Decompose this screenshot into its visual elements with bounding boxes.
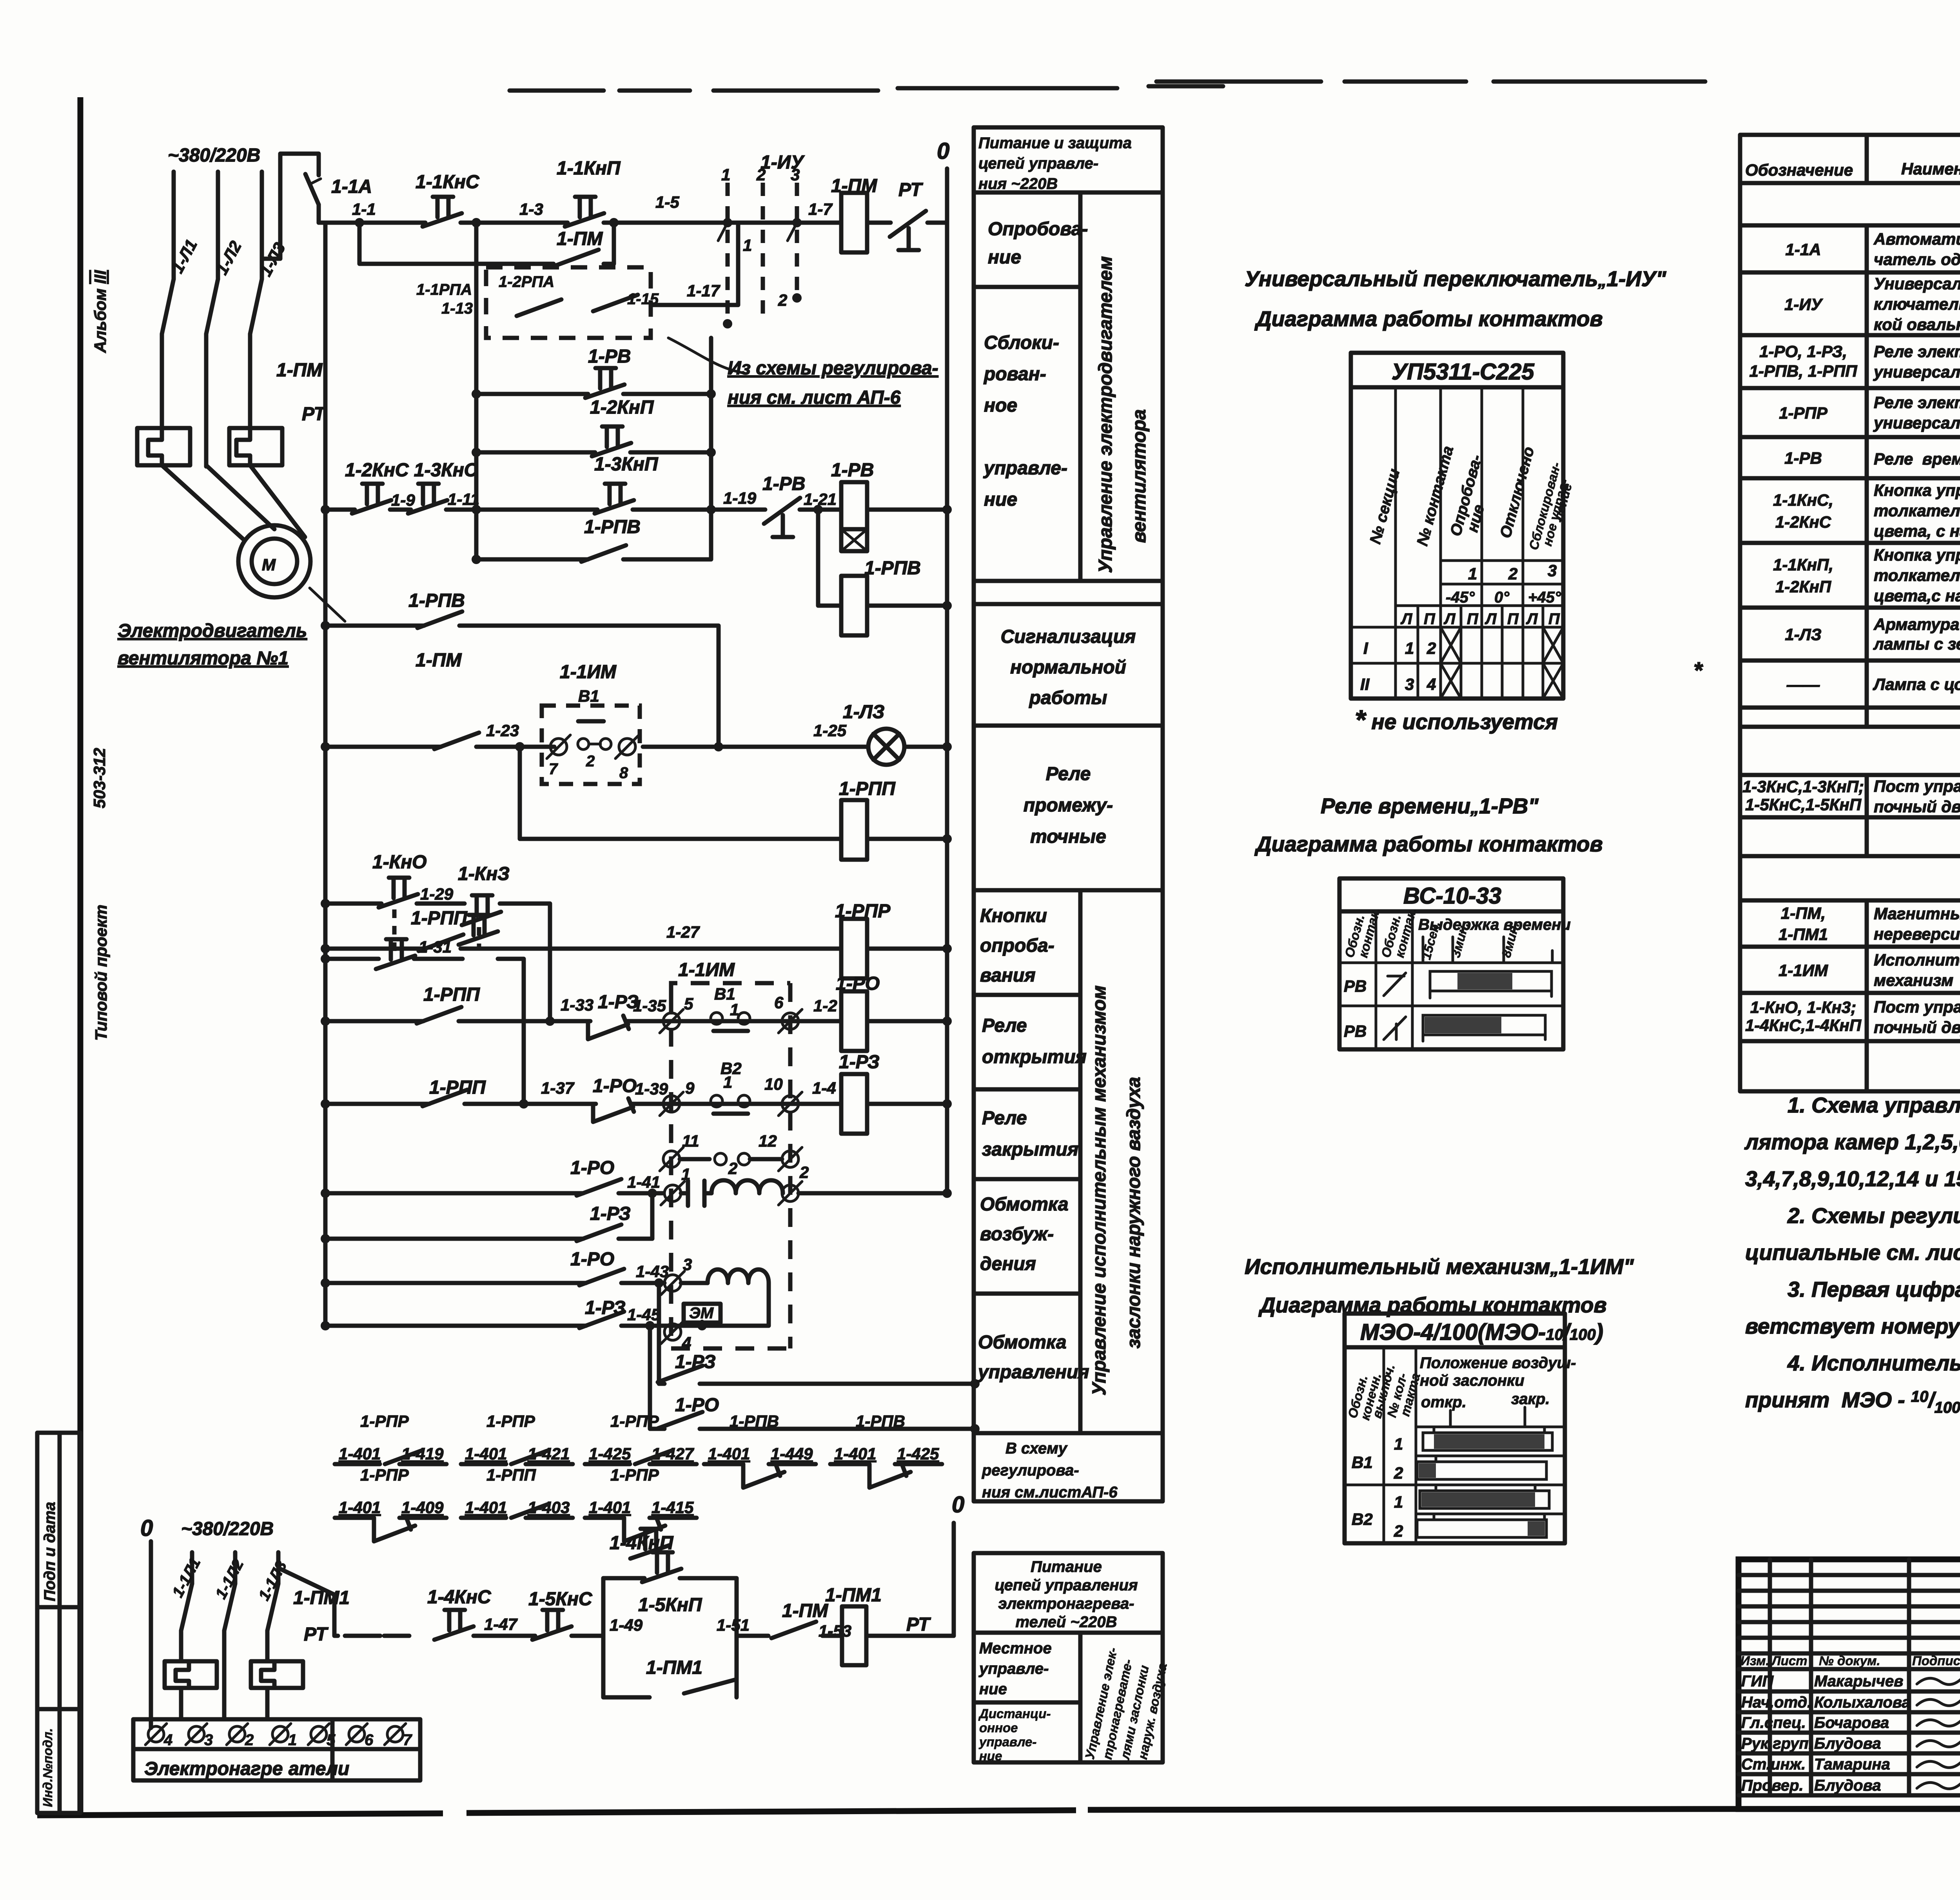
svg-text:1-17: 1-17: [687, 281, 720, 300]
table MEO-4/100: [1345, 1314, 1603, 1543]
svg-text:Подп и дата: Подп и дата: [41, 1502, 58, 1601]
svg-text:Наименование: Наименование: [1901, 160, 1960, 178]
row 1-1KnP buttons: [1773, 546, 1960, 605]
svg-text:В1: В1: [714, 985, 735, 1003]
coil 1-RPR: [835, 901, 891, 978]
node 1-25: [813, 721, 847, 740]
svg-text:1-401: 1-401: [589, 1498, 631, 1517]
svg-text:Л: Л: [1443, 610, 1456, 628]
svg-text:П: П: [1507, 610, 1519, 628]
coil 1-PM1: [822, 1585, 954, 1665]
node 1-51: [717, 1616, 750, 1634]
svg-text:1-1КнС,: 1-1КнС,: [1773, 491, 1833, 509]
node 1-31: [419, 938, 452, 956]
coil 1-RO: [836, 973, 880, 1051]
wire interlock to rung1: [651, 223, 738, 305]
svg-text:1: 1: [721, 165, 730, 184]
svg-text:3: 3: [683, 1255, 692, 1274]
svg-text:1-409: 1-409: [401, 1498, 444, 1517]
svg-text:Нач.отд.: Нач.отд.: [1741, 1694, 1811, 1711]
svg-text:1-1РПА: 1-1РПА: [416, 281, 472, 298]
svg-text:телей ~220В: телей ~220В: [1016, 1613, 1117, 1631]
contact 1-RO r12: [570, 1249, 624, 1285]
wire 1-RO to regulation: [650, 1326, 980, 1434]
svg-text:Инд.№подл.: Инд.№подл.: [40, 1728, 55, 1807]
svg-text:0°: 0°: [1494, 589, 1510, 606]
svg-text:Реле электромагнитное: Реле электромагнитное: [1874, 393, 1960, 412]
svg-text:1-ПМ1: 1-ПМ1: [825, 1585, 882, 1606]
svg-text:ния ~220В: ния ~220В: [978, 175, 1058, 192]
svg-text:1-ПМ,: 1-ПМ,: [1781, 904, 1826, 922]
svg-text:Л: Л: [1485, 610, 1497, 628]
contact 1-RO r11: [570, 1158, 621, 1196]
contact 1-PM1 seal: [646, 1657, 702, 1678]
label ~380/220V bottom: [181, 1519, 274, 1539]
svg-text:ное: ное: [984, 395, 1017, 416]
svg-text:12: 12: [759, 1132, 777, 1150]
winding humps r11: [711, 1180, 783, 1193]
coil 1-PM: [831, 176, 877, 252]
svg-text:В2: В2: [720, 1059, 742, 1078]
svg-text:рован-: рован-: [983, 364, 1046, 385]
wire rung 1-RPV aux: [472, 510, 711, 564]
svg-text:1-449: 1-449: [771, 1445, 813, 1463]
svg-text:1-7: 1-7: [808, 200, 833, 218]
margin text Tipovoy proekt: [92, 905, 110, 1041]
svg-text:1: 1: [1394, 1493, 1403, 1511]
svg-text:вания: вания: [980, 965, 1036, 986]
svg-text:I: I: [1363, 639, 1368, 657]
svg-text:1-1ИМ: 1-1ИМ: [1779, 961, 1828, 980]
svg-text:В1: В1: [578, 687, 599, 705]
wire rung2: [321, 505, 952, 514]
wire 1-RZ branch r11a: [321, 1193, 652, 1243]
svg-text:1-ПМ1: 1-ПМ1: [646, 1657, 702, 1678]
row PKE722 posts: [1742, 777, 1960, 816]
svg-text:1-РПП: 1-РПП: [429, 1077, 486, 1098]
svg-text:Типовой проект: Типовой проект: [92, 905, 110, 1041]
svg-text:1-РО, 1-РЗ,: 1-РО, 1-РЗ,: [1759, 342, 1847, 361]
button test row2 left: [376, 939, 415, 969]
svg-text:1-РО: 1-РО: [570, 1249, 614, 1270]
right riser x1814: [706, 338, 716, 514]
svg-text:Электродвигатель: Электродвигатель: [118, 621, 307, 641]
motor M circle: [162, 465, 310, 597]
svg-text:Управление исполнительным меха: Управление исполнительным механизмом: [1089, 985, 1110, 1396]
svg-text:3: 3: [204, 1731, 213, 1749]
dashed interlock box RPA: [486, 267, 651, 338]
terminal 5: [660, 994, 693, 1033]
svg-text:6: 6: [774, 993, 784, 1012]
heater phase terminals: [145, 1724, 412, 1749]
button 1-4KnS: [427, 1587, 492, 1640]
svg-text:универсальное: универсальное: [1873, 363, 1960, 381]
contact group 1-RPR 401-419: [335, 1412, 446, 1464]
svg-text:Электронагреатели: Электронагреатели: [144, 1758, 349, 1779]
svg-text:толкателем красного: толкателем красного: [1874, 501, 1960, 520]
button test row2 right: [459, 915, 498, 945]
svg-text:регулирова-: регулирова-: [982, 1462, 1079, 1479]
svg-text:1-ПМ: 1-ПМ: [831, 176, 877, 196]
svg-text:дения: дения: [980, 1254, 1036, 1274]
svg-text:ние: ние: [979, 1749, 1002, 1763]
svg-text:Альбом III: Альбом III: [91, 270, 109, 353]
svg-text:1-13: 1-13: [441, 300, 473, 317]
row 1-RO relays: [1749, 342, 1960, 382]
svg-text:Тамарина: Тамарина: [1814, 1756, 1890, 1773]
svg-text:1-2КнП: 1-2КнП: [1775, 577, 1831, 596]
label RT right: [906, 1614, 931, 1635]
function Knopki oprobovaniya: [980, 906, 1054, 986]
row 1-LZ lamp armature: [1785, 615, 1960, 653]
svg-text:В1: В1: [1352, 1453, 1373, 1472]
button 1-KnZ: [458, 864, 510, 925]
bottom-left stamp column: [37, 1433, 80, 1813]
svg-text:Дистанци-: Дистанци-: [978, 1706, 1051, 1721]
wire rung V1 1-RO: [321, 1016, 952, 1026]
svg-text:Питание: Питание: [1031, 1558, 1102, 1575]
svg-text:Лист: Лист: [1771, 1653, 1808, 1668]
wire rung1: [319, 221, 947, 225]
terminal 10: [764, 1075, 802, 1116]
svg-text:Макарычев: Макарычев: [1814, 1673, 1903, 1690]
svg-text:1-РПР: 1-РПР: [1779, 404, 1828, 422]
svg-text:М: М: [262, 555, 276, 574]
svg-text:РТ: РТ: [304, 1624, 328, 1645]
wire rung control winding: [321, 1278, 708, 1288]
svg-text:1-1ИМ: 1-1ИМ: [678, 960, 735, 980]
coil 1-RV with delay box: [831, 460, 874, 551]
svg-text:ной заслонки: ной заслонки: [1420, 1372, 1524, 1389]
coil 1-RPV: [813, 505, 952, 635]
svg-text:1-РПП: 1-РПП: [839, 779, 896, 799]
svg-text:1-25: 1-25: [813, 721, 847, 740]
svg-text:2: 2: [728, 1159, 737, 1178]
time contact 1-RV: [762, 474, 805, 537]
svg-text:чатель однополюсный: чатель однополюсный: [1874, 250, 1960, 269]
limit switch box 1-1IM V1: [542, 662, 640, 784]
svg-text:Лампа с цоколем 2Ш-15: Лампа с цоколем 2Ш-15: [1873, 675, 1960, 693]
heater phase 1-1L1: [169, 1552, 204, 1600]
svg-text:вентилятора: вентилятора: [1129, 409, 1150, 543]
svg-text:4: 4: [163, 1731, 172, 1749]
contact 1-RZ r14: [658, 1352, 716, 1382]
svg-text:503-312: 503-312: [90, 748, 109, 808]
svg-text:1-КнЗ: 1-КнЗ: [458, 864, 510, 884]
row lamp 2Sh-15: [1786, 664, 1960, 705]
wire lamp rung: [321, 742, 952, 751]
svg-text:1-РПР: 1-РПР: [610, 1466, 659, 1484]
svg-text:1-РПВ: 1-РПВ: [730, 1412, 779, 1430]
svg-text:П: П: [1424, 610, 1436, 628]
svg-text:цвета,с надписью„пуск": цвета,с надписью„пуск": [1874, 586, 1960, 605]
phase line 1-L2: [212, 172, 245, 279]
svg-text:10: 10: [764, 1075, 783, 1093]
svg-text:№ докум.: № докум.: [1819, 1653, 1880, 1668]
svg-text:В2: В2: [1352, 1510, 1373, 1528]
svg-text:заслонки наружного ваздуха: заслонки наружного ваздуха: [1123, 1077, 1144, 1348]
svg-text:3. Первая цифра в маркировке а: 3. Первая цифра в маркировке аппаратуры …: [1788, 1277, 1960, 1301]
svg-text:Автоматический выклю-: Автоматический выклю-: [1873, 230, 1960, 248]
node 1-41: [627, 1173, 660, 1191]
svg-text:1-РПР: 1-РПР: [610, 1412, 659, 1430]
svg-text:7: 7: [403, 1731, 412, 1749]
function Oprobovanie: [988, 219, 1088, 268]
row 1-RPR relay: [1779, 393, 1960, 433]
table UP5311-S225: [1351, 353, 1575, 699]
components table frame: [1740, 135, 1960, 1091]
label 0 bottom-left: [140, 1515, 153, 1541]
svg-text:1: 1: [1405, 639, 1414, 657]
contact 1-1RPA: [416, 281, 561, 317]
svg-text:ГИП: ГИП: [1741, 1673, 1774, 1690]
heater phase 1-1L3: [255, 1552, 290, 1603]
svg-text:1-43: 1-43: [636, 1262, 669, 1281]
svg-text:закр.: закр.: [1511, 1390, 1550, 1408]
row 1-1IM actuator: [1779, 947, 1960, 993]
svg-text:1-1КнП: 1-1КнП: [557, 158, 621, 179]
svg-text:1-РПП: 1-РПП: [411, 908, 468, 929]
svg-text:9: 9: [685, 1079, 695, 1097]
svg-text:1-РПР: 1-РПР: [360, 1412, 409, 1430]
svg-text:цепей управления: цепей управления: [995, 1577, 1138, 1594]
svg-text:Обозначение: Обозначение: [1745, 161, 1853, 179]
svg-text:ВС-10-33: ВС-10-33: [1403, 883, 1501, 909]
svg-text:1-37: 1-37: [541, 1079, 575, 1097]
function Sblokirovannoe upravlenie: [983, 332, 1067, 510]
contact group 1-RPV 401-425: [830, 1412, 942, 1488]
function Obmotka vozbuzhdeniya: [980, 1194, 1069, 1274]
svg-text:1-РЗ: 1-РЗ: [585, 1298, 626, 1318]
svg-text:1-4КнС: 1-4КнС: [427, 1587, 492, 1608]
svg-text:2: 2: [1508, 564, 1517, 583]
contactor 1-PM main contacts: [162, 279, 323, 466]
svg-text:Кнопка управления с: Кнопка управления с: [1874, 481, 1960, 499]
svg-text:РВ: РВ: [1344, 1022, 1367, 1040]
svg-text:откр.: откр.: [1421, 1394, 1466, 1411]
wire 1-RZ to regulation: [659, 1283, 980, 1388]
node 1-37: [541, 1079, 575, 1097]
svg-text:1: 1: [743, 236, 752, 254]
svg-text:УП5311-С225: УП5311-С225: [1392, 359, 1534, 385]
row 1-RV time relay: [1784, 449, 1960, 468]
svg-text:1-29: 1-29: [420, 885, 454, 903]
node 1-1: [352, 200, 376, 218]
table VS-10-33: [1339, 878, 1571, 1049]
svg-text:закрытия: закрытия: [982, 1139, 1078, 1160]
function Obmotka upravleniya: [977, 1332, 1089, 1383]
contact 1-RZ r13: [579, 1298, 626, 1328]
svg-text:1-45: 1-45: [627, 1305, 661, 1324]
node 1-35: [633, 996, 666, 1015]
sheet frame left border: [78, 97, 83, 1813]
svg-text:4: 4: [682, 1334, 691, 1352]
svg-text:Сблоки-: Сблоки-: [984, 332, 1059, 353]
label Elektronagrevateli: [144, 1758, 349, 1779]
button 1-5KnP: [638, 1552, 702, 1615]
svg-text:Бочарова: Бочарова: [1814, 1714, 1889, 1731]
svg-text:цепей управле-: цепей управле-: [978, 155, 1098, 172]
label ~380/220V supply: [168, 145, 260, 166]
svg-text:1-ПМ: 1-ПМ: [276, 360, 323, 381]
svg-text:~380/220В: ~380/220В: [168, 145, 260, 166]
contact 1-2RPA: [499, 273, 659, 311]
svg-text:Изм.: Изм.: [1740, 1653, 1769, 1668]
svg-text:3,4,7,8,9,10,12,14 и 15 аналог: 3,4,7,8,9,10,12,14 и 15 аналогична данно…: [1745, 1167, 1960, 1191]
EM brake circuit: [681, 1283, 769, 1330]
svg-text:II: II: [1360, 675, 1370, 693]
terminal 4: [661, 1320, 691, 1352]
wire heater control feed: [278, 1568, 409, 1636]
svg-text:Блудова: Блудова: [1814, 1777, 1881, 1794]
svg-text:цвета, с надписью„стоп": цвета, с надписью„стоп": [1874, 522, 1960, 540]
svg-text:Управление электродвигателем: Управление электродвигателем: [1095, 256, 1116, 573]
svg-text:Сигнализация: Сигнализация: [1001, 626, 1136, 647]
svg-text:0: 0: [140, 1515, 153, 1541]
svg-text:1-1ИМ: 1-1ИМ: [560, 662, 617, 682]
svg-text:6: 6: [365, 1731, 374, 1749]
svg-text:Блудова: Блудова: [1814, 1735, 1881, 1752]
svg-text:0: 0: [937, 138, 949, 164]
svg-text:1-ПМ1: 1-ПМ1: [1779, 925, 1828, 944]
function column frame: [974, 127, 1163, 1501]
svg-text:Подпись: Подпись: [1912, 1653, 1960, 1668]
svg-text:5: 5: [327, 1731, 336, 1749]
svg-text:ключатель с рукоят-: ключатель с рукоят-: [1874, 295, 1960, 313]
svg-text:-45°: -45°: [1446, 589, 1475, 606]
leader to note: [668, 338, 745, 373]
svg-text:+45°: +45°: [1528, 589, 1561, 606]
svg-text:*: *: [1693, 658, 1703, 683]
function rotated Upravlenie elektronagrevatelyami: [1082, 1646, 1170, 1762]
note Iz shemy regulirovaniya: [728, 358, 938, 408]
svg-text:ципиальные см. лист АП-8.: ципиальные см. лист АП-8.: [1745, 1240, 1960, 1265]
svg-text:нормальной: нормальной: [1010, 657, 1126, 678]
svg-text:1-4КнП: 1-4КнП: [610, 1533, 674, 1553]
svg-text:возбуж-: возбуж-: [980, 1224, 1054, 1245]
contactor 1-PM1 contacts: [181, 1584, 350, 1660]
svg-text:Арматура для сигнальной: Арматура для сигнальной: [1873, 615, 1960, 633]
svg-text:2: 2: [245, 1731, 254, 1749]
svg-text:РТ: РТ: [906, 1614, 931, 1635]
svg-text:11: 11: [682, 1132, 699, 1150]
node 1-33: [561, 996, 593, 1014]
svg-text:Реле: Реле: [982, 1108, 1027, 1129]
contact 1-PM lamp: [416, 650, 479, 749]
wire r16 a: [474, 1634, 535, 1638]
svg-text:ЭМ: ЭМ: [689, 1305, 714, 1322]
svg-text:4: 4: [1426, 675, 1436, 693]
svg-text:Положение воздуш-: Положение воздуш-: [1420, 1354, 1576, 1372]
contact group 1-RPR 401-409: [335, 1466, 446, 1541]
limit contact V2: [711, 1059, 750, 1114]
svg-text:РТ: РТ: [302, 404, 327, 425]
svg-text:1-1: 1-1: [352, 200, 376, 218]
contact 1-RV aux: [585, 346, 631, 398]
left bus wire: [323, 223, 328, 1326]
margin text Albom III: [91, 270, 109, 353]
svg-text:1-РПР: 1-РПР: [486, 1412, 535, 1430]
svg-text:Колыхалова: Колыхалова: [1814, 1694, 1911, 1711]
svg-text:1-КнО, 1-Кн3;: 1-КнО, 1-Кн3;: [1750, 998, 1856, 1016]
svg-text:1-РВ: 1-РВ: [588, 346, 631, 367]
wire rung 1-RPV signal: [321, 621, 719, 747]
node 1-23: [486, 721, 519, 740]
svg-text:1-401: 1-401: [339, 1445, 381, 1463]
function Rele promezhutochnye: [1024, 764, 1113, 847]
svg-text:1-425: 1-425: [897, 1445, 939, 1463]
button 1-2KnS: [352, 484, 391, 514]
svg-text:точные: точные: [1030, 826, 1106, 847]
sheet frame bottom border: [37, 1808, 1960, 1815]
svg-text:2: 2: [1394, 1522, 1403, 1540]
node 1-11: [448, 490, 479, 508]
svg-text:1-401: 1-401: [339, 1498, 381, 1517]
svg-text:1: 1: [1468, 564, 1477, 583]
svg-text:1-РПВ: 1-РПВ: [584, 517, 641, 537]
svg-text:2: 2: [1394, 1464, 1403, 1482]
svg-text:1-401: 1-401: [708, 1445, 750, 1463]
terminal 9: [660, 1079, 695, 1116]
asterisk note: [1355, 658, 1703, 735]
svg-text:онное: онное: [979, 1720, 1018, 1735]
svg-text:Исполнительный механизм„1-1ИМ": Исполнительный механизм„1-1ИМ": [1245, 1254, 1634, 1279]
svg-text:управле-: управле-: [978, 1660, 1049, 1677]
wire rung 1-45: [321, 1321, 681, 1330]
svg-text:электронагрева-: электронагрева-: [998, 1595, 1134, 1612]
svg-text:1-425: 1-425: [589, 1445, 631, 1463]
svg-text:1: 1: [288, 1731, 297, 1749]
button 1-4KnP: [610, 1529, 674, 1559]
svg-text:1-4: 1-4: [812, 1079, 836, 1097]
svg-text:ние: ние: [979, 1680, 1007, 1698]
node 1-5: [655, 193, 679, 211]
button 1-3KnP: [594, 454, 659, 514]
svg-text:почный двухштифтовый: почный двухштифтовый: [1874, 797, 1960, 816]
contact group 1-RPR 401-415: [585, 1466, 697, 1541]
heater terminal box: [133, 1719, 420, 1780]
svg-text:Местное: Местное: [979, 1640, 1052, 1657]
svg-text:Исполнительный: Исполнительный: [1874, 951, 1960, 969]
svg-text:1-401: 1-401: [834, 1445, 876, 1463]
svg-text:3: 3: [791, 165, 800, 184]
function V shemu regulirovaniya: [982, 1440, 1118, 1501]
svg-text:2: 2: [756, 165, 766, 184]
svg-text:ния см. лист АП-6: ния см. лист АП-6: [728, 387, 901, 408]
svg-text:1-ЛЗ: 1-ЛЗ: [843, 702, 885, 722]
wire rung 1-RV aux: [472, 389, 716, 399]
function Rele otkrytiya: [982, 1015, 1087, 1067]
svg-text:Универсальный пере-: Универсальный пере-: [1874, 274, 1960, 293]
svg-text:1-35: 1-35: [633, 996, 666, 1015]
thermal heaters RT bottom: [165, 1631, 303, 1719]
svg-text:Магнитный пускатель: Магнитный пускатель: [1874, 904, 1960, 923]
svg-text:толкателем черного: толкателем черного: [1874, 566, 1960, 584]
svg-text:4. Исполнительный механизм „1-: 4. Исполнительный механизм „1-1ИМ" для к…: [1787, 1351, 1960, 1375]
svg-text:1-39: 1-39: [635, 1080, 668, 1098]
svg-text:1-4КнС,1-4КнП: 1-4КнС,1-4КнП: [1745, 1016, 1862, 1034]
node 1-45: [627, 1305, 661, 1324]
svg-text:Л: Л: [1400, 610, 1413, 628]
svg-text:лампы с зеленой линзой: лампы с зеленой линзой: [1873, 635, 1960, 653]
contact 1-RZ NC: [588, 992, 639, 1039]
svg-text:3: 3: [1548, 561, 1557, 580]
svg-text:Обмотка: Обмотка: [978, 1332, 1067, 1353]
svg-text:5: 5: [684, 994, 693, 1013]
svg-text:1-ПМ: 1-ПМ: [782, 1601, 828, 1621]
svg-text:нереверсивный: нереверсивный: [1874, 925, 1960, 943]
wire rung 1-2KnP: [472, 448, 716, 457]
